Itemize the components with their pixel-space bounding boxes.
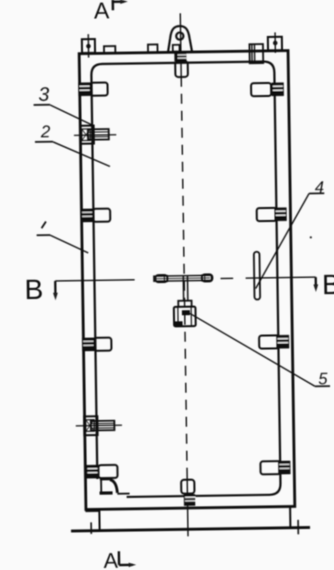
door inner gasket line (rounded, bottom-left corner open for scupper) [91, 61, 280, 497]
dog L4 hatch [86, 465, 99, 479]
dog L2 handle [93, 209, 110, 222]
dog L1 handle [90, 82, 107, 95]
dog R3 handle [259, 335, 279, 348]
handle shaft [183, 276, 188, 301]
dog R4 hatch [278, 461, 290, 475]
horizontal centerline [55, 277, 315, 281]
section bracket B left [54, 281, 56, 294]
hinge lower-left axis [76, 424, 122, 427]
hinge lower-left plate [84, 416, 97, 435]
dog R3 hatch [276, 335, 289, 349]
small tab top 1 [104, 46, 115, 53]
section bracket A top [113, 0, 124, 10]
scupper bottom-left [100, 478, 110, 480]
svg-text:А: А [94, 0, 110, 23]
hinge lower-left barrel [91, 421, 115, 431]
wedge strip item4 [254, 252, 260, 300]
dog L1 hatch [78, 82, 91, 96]
dog L3 handle [94, 338, 111, 351]
lifting eye lug [168, 26, 192, 52]
bracket tab top-right [249, 44, 263, 63]
sill left step [85, 510, 98, 512]
bottom hinge hatch [184, 494, 195, 506]
sill left vertical [98, 509, 100, 530]
label 1 [41, 221, 46, 228]
speck [310, 236, 312, 238]
top hinge hatch [174, 52, 186, 62]
sill tick left [90, 522, 92, 534]
section bracket A bottom [119, 551, 133, 565]
dog L2 hatch [81, 209, 94, 223]
vertical centerline [179, 13, 182, 76]
door outer frame [79, 51, 295, 510]
hinge upper-left axis [74, 134, 116, 137]
svg-text:В: В [322, 269, 334, 300]
bolt tab top-left [82, 39, 95, 53]
dog R1 handle [251, 83, 271, 96]
handle knob left [155, 275, 167, 282]
dog R1 hatch [272, 82, 284, 96]
sill right vertical [289, 506, 291, 527]
small tab top 2 [148, 44, 158, 52]
eye base tab [173, 45, 180, 52]
svg-text:В: В [24, 274, 43, 305]
bolt tab top-right [268, 37, 282, 51]
handle crossbar [154, 275, 212, 281]
top hinge plate [175, 61, 188, 77]
dog R2 handle [257, 208, 277, 221]
bottom hinge plate [181, 480, 194, 494]
handle cylinder [174, 307, 196, 327]
hinge upper-left barrel [88, 129, 109, 140]
hinge upper-left plate [80, 126, 94, 144]
svg-text:3: 3 [38, 84, 49, 106]
section bracket B right [315, 277, 317, 285]
dog L3 hatch [82, 338, 95, 352]
svg-text:А: А [103, 549, 118, 570]
dog R2 hatch [274, 207, 286, 221]
dog R4 handle [260, 461, 280, 474]
sill tick right [297, 520, 299, 534]
sill bottom line [71, 528, 310, 532]
handle knob right [202, 274, 213, 281]
svg-text:2: 2 [40, 122, 51, 141]
handle collar [178, 301, 191, 307]
dog L4 handle [98, 465, 117, 478]
